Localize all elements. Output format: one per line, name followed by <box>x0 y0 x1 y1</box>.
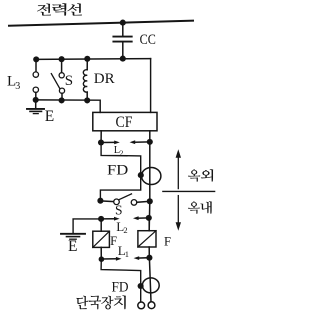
svg-text:FD: FD <box>112 279 129 295</box>
svg-text:CC: CC <box>140 32 156 48</box>
svg-text:FD: FD <box>107 162 128 178</box>
svg-text:E: E <box>45 108 54 125</box>
svg-text:CF: CF <box>116 114 133 131</box>
svg-text:3: 3 <box>15 81 20 92</box>
svg-text:F: F <box>110 234 117 248</box>
svg-text:F: F <box>164 234 171 248</box>
svg-text:E: E <box>68 238 77 255</box>
svg-text:DR: DR <box>94 71 115 87</box>
svg-text:2: 2 <box>120 148 124 157</box>
svg-text:2: 2 <box>123 225 127 235</box>
svg-text:S: S <box>65 73 73 89</box>
svg-text:1: 1 <box>125 249 129 259</box>
svg-text:S: S <box>115 203 123 218</box>
